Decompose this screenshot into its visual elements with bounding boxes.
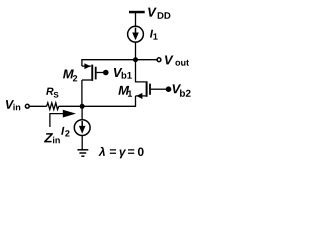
wire input node down to I2 bbox=[81, 106, 83, 120]
label eq bbox=[98, 147, 143, 159]
label Vout bbox=[165, 55, 189, 65]
wire M2 gate lead bbox=[97, 72, 104, 74]
terminal Vin open circle bbox=[25, 104, 29, 108]
wire I1 to Vout node bbox=[135, 42, 137, 60]
label VDD bbox=[148, 8, 170, 19]
bias dot Vb1 bbox=[103, 70, 109, 76]
transistor M2 bbox=[82, 63, 97, 81]
wire junction to Vout terminal bbox=[136, 59, 157, 61]
label Vb1 bbox=[114, 68, 132, 79]
label Vb2 bbox=[173, 84, 191, 96]
label RS bbox=[46, 88, 58, 98]
node Vout junction dot bbox=[133, 57, 138, 62]
label I2 bbox=[61, 127, 69, 137]
node input junction dot bbox=[80, 104, 85, 109]
label M1 bbox=[118, 86, 132, 97]
label I1 bbox=[150, 30, 158, 40]
label Zin bbox=[44, 133, 60, 143]
wire Vout node to M2 drain (top wire) bbox=[82, 60, 136, 66]
terminal Vout open circle bbox=[157, 58, 161, 62]
wire M1 gate lead bbox=[151, 88, 166, 90]
label Vin bbox=[6, 100, 20, 110]
wire I2 to ground bbox=[81, 136, 83, 150]
wire Vin to RS bbox=[30, 105, 47, 107]
power rail VDD bar bbox=[129, 11, 145, 14]
current source I1 bbox=[128, 26, 144, 42]
wire M2 source down to input node bbox=[81, 80, 83, 106]
Zin arrow bbox=[50, 110, 76, 127]
current source I2 bbox=[74, 120, 90, 136]
ground bbox=[77, 150, 88, 156]
resistor RS bbox=[47, 103, 59, 110]
wire RS to M1 source rail bbox=[59, 105, 136, 107]
wire Vout node down to M1 drain bbox=[136, 60, 146, 82]
transistor M1 bbox=[136, 81, 151, 107]
bias dot Vb2 bbox=[166, 86, 172, 92]
wire VDD to I1 bbox=[135, 13, 137, 26]
label M2 bbox=[63, 69, 77, 81]
